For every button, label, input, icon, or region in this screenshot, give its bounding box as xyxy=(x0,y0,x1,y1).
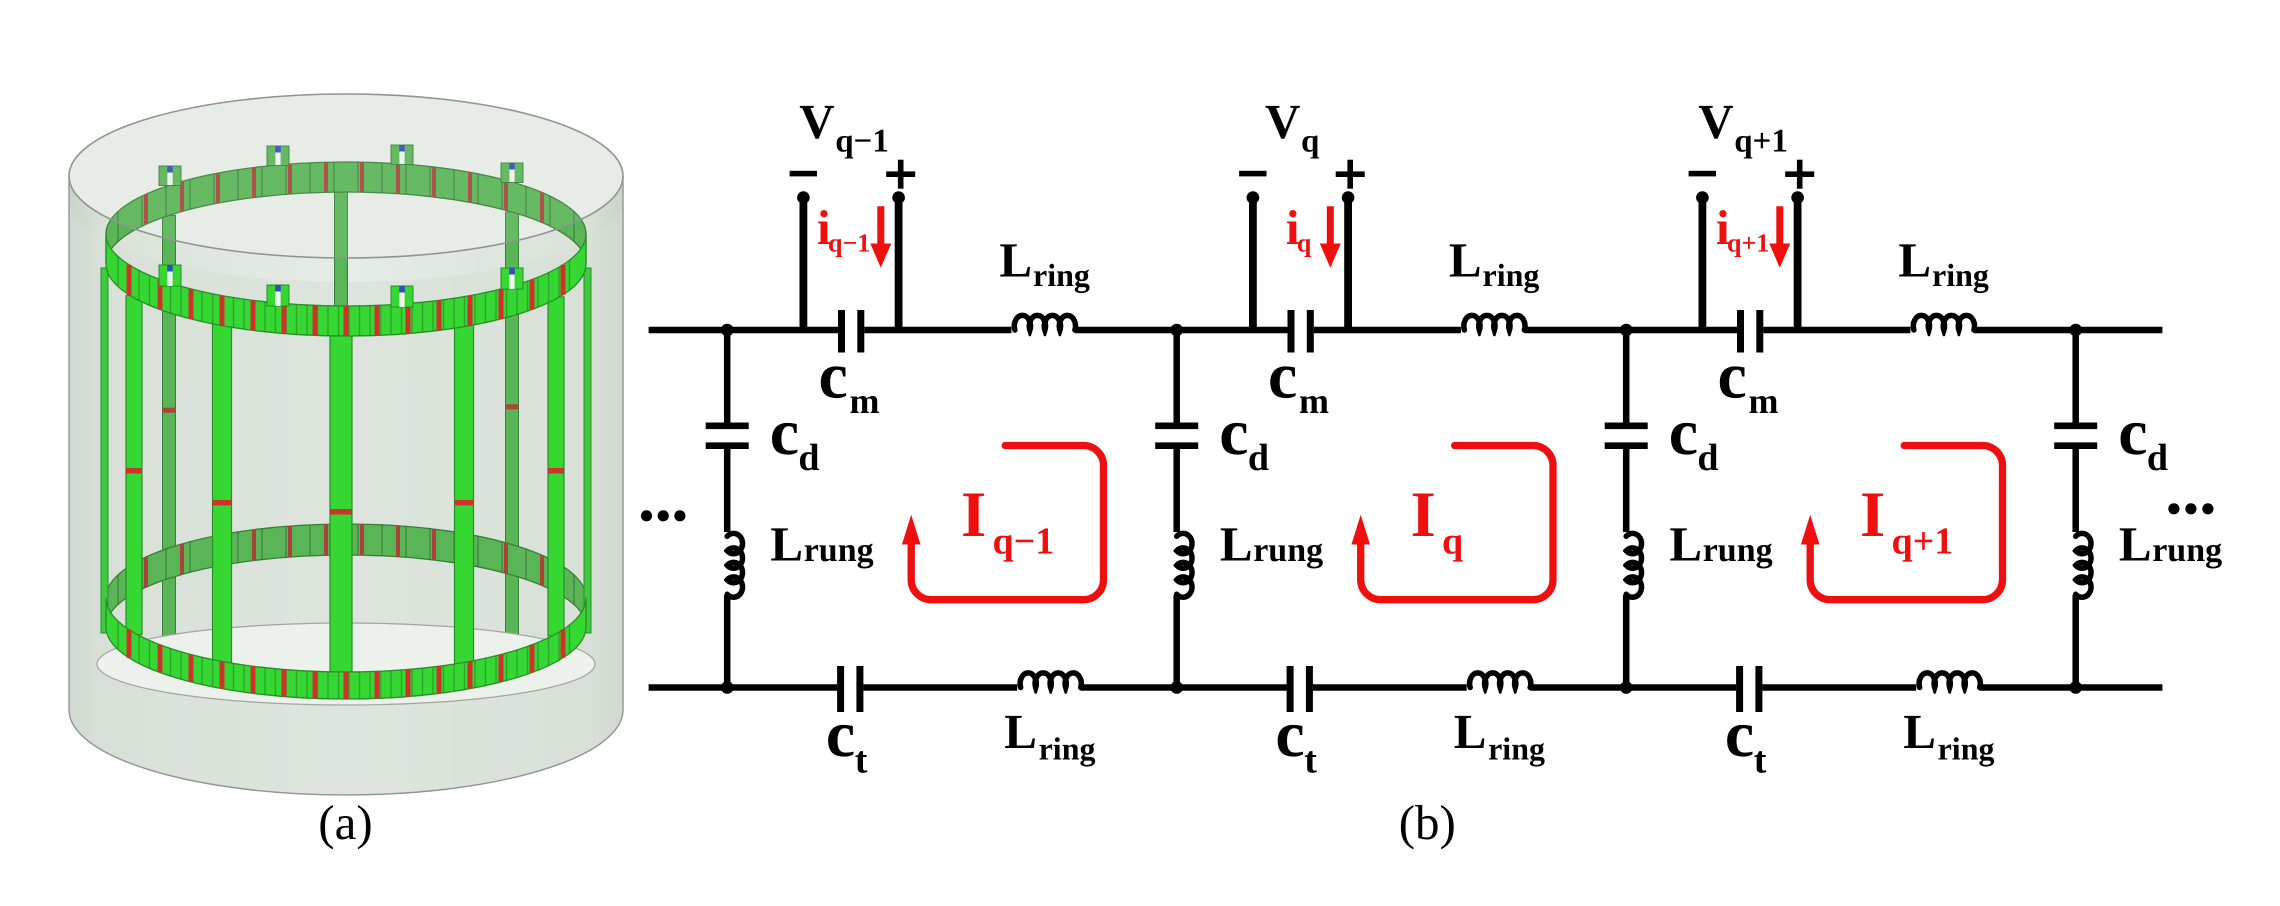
port stub left (node q+1 minus) xyxy=(1699,198,1707,332)
svg-text:t: t xyxy=(855,740,868,782)
glass tint overlay and outlines xyxy=(69,94,623,795)
svg-text:L: L xyxy=(1220,517,1253,572)
wire: rail 4 middle segment xyxy=(2072,449,2079,532)
wire: top ring bus xyxy=(649,327,838,334)
wire: rail 3 lower segment xyxy=(1623,595,1630,688)
svg-text:d: d xyxy=(2147,437,2168,479)
junction dot rail 1 top xyxy=(721,324,734,337)
arrowhead of loop I_q xyxy=(1351,515,1370,545)
port terminal dot plus q+1 xyxy=(1791,191,1804,204)
port stub right (node q plus) xyxy=(1344,198,1352,332)
svg-text:rung: rung xyxy=(804,532,874,569)
svg-text:(b): (b) xyxy=(1399,795,1456,850)
inductor L_ring top (cell q) xyxy=(1464,315,1525,330)
silhouette edge rungs xyxy=(101,268,108,633)
svg-text:c: c xyxy=(826,698,855,771)
ellipsis left (continued network) xyxy=(641,510,652,521)
minus sign of V_q+1 xyxy=(1689,171,1716,177)
svg-text:q: q xyxy=(1297,229,1312,258)
svg-text:q−1: q−1 xyxy=(835,124,889,160)
svg-text:ring: ring xyxy=(1033,257,1090,294)
arrowhead of loop I_q+1 xyxy=(1801,515,1820,545)
arrowhead of loop I_q-1 xyxy=(902,515,921,545)
svg-text:I: I xyxy=(1411,479,1436,551)
svg-text:V: V xyxy=(799,94,834,149)
wire: rail 4 lower segment xyxy=(2072,595,2079,688)
front rungs of birdcage with capacitor gaps xyxy=(126,296,142,635)
svg-text:m: m xyxy=(1749,381,1779,421)
svg-text:ring: ring xyxy=(1932,257,1989,294)
inductor L_ring top (cell q-1) xyxy=(1014,315,1075,330)
svg-text:q: q xyxy=(1301,124,1320,160)
svg-text:L: L xyxy=(1669,517,1702,572)
svg-text:ring: ring xyxy=(1488,731,1545,768)
svg-text:c: c xyxy=(1219,396,1248,469)
inductor L_ring top (cell q+1) xyxy=(1913,315,1974,330)
inductor L_ring bottom (cell q+1) xyxy=(1919,673,1980,688)
ellipsis right (continued network) xyxy=(2168,503,2179,514)
wire: rail 2 middle segment xyxy=(1173,449,1180,532)
svg-text:rung: rung xyxy=(1253,532,1323,569)
junction dot rail 2 bottom xyxy=(1170,681,1183,694)
mesh current loop I_q (red) xyxy=(1361,446,1553,600)
svg-text:L: L xyxy=(2119,517,2152,572)
minus sign of V_q-1 xyxy=(790,171,817,177)
svg-text:t: t xyxy=(1304,740,1317,782)
svg-text:L: L xyxy=(999,233,1032,288)
svg-text:L: L xyxy=(1004,704,1037,759)
svg-text:d: d xyxy=(1697,437,1718,479)
junction dot rail 2 top xyxy=(1170,324,1183,337)
wire: rail 3 middle segment xyxy=(1623,449,1630,532)
svg-text:L: L xyxy=(770,517,803,572)
svg-text:c: c xyxy=(1725,698,1754,771)
svg-text:V: V xyxy=(1265,94,1300,149)
capacitor C_d (rail 4) xyxy=(2054,423,2097,430)
arrow i_q+1 downward (red) xyxy=(1776,206,1783,245)
svg-text:rung: rung xyxy=(1703,532,1773,569)
capacitor C_m (cell q-1) xyxy=(838,310,845,353)
end-ring back arcs with capacitor gaps xyxy=(106,162,586,264)
svg-text:t: t xyxy=(1754,740,1767,782)
plus sign of V_q xyxy=(1336,171,1365,177)
port stub left (node q-1 minus) xyxy=(800,198,808,332)
capacitor C_t (cell q+1) xyxy=(1736,666,1743,712)
port stub right (node q+1 plus) xyxy=(1794,198,1802,332)
plus sign of V_q-1 xyxy=(886,171,915,177)
svg-text:L: L xyxy=(1449,233,1482,288)
svg-text:q+1: q+1 xyxy=(1892,521,1954,563)
arrow i_q downward (red) xyxy=(1327,206,1334,245)
svg-text:m: m xyxy=(1299,381,1329,421)
svg-text:(a): (a) xyxy=(318,795,372,850)
svg-text:c: c xyxy=(819,340,848,413)
junction dot rail 4 top xyxy=(2069,324,2082,337)
svg-text:c: c xyxy=(1669,396,1698,469)
svg-text:c: c xyxy=(2118,396,2147,469)
svg-text:rung: rung xyxy=(2152,532,2222,569)
svg-text:c: c xyxy=(1275,698,1304,771)
capacitor C_m (cell q+1) xyxy=(1737,310,1744,353)
port stub left (node q minus) xyxy=(1249,198,1257,332)
wire: rung rail 4 upper segment xyxy=(2072,330,2079,423)
inductor L_rung (rail 3) xyxy=(1626,533,1641,597)
svg-text:ring: ring xyxy=(1039,731,1096,768)
cylinder floor ellipse xyxy=(97,623,595,705)
svg-text:L: L xyxy=(1903,704,1936,759)
port terminal dot plus q xyxy=(1342,191,1355,204)
wire: rail 2 lower segment xyxy=(1173,595,1180,688)
wire: rail 1 middle segment xyxy=(724,449,731,532)
inductor L_ring bottom (cell q) xyxy=(1470,673,1531,688)
port tabs on back of top end-ring xyxy=(159,166,181,186)
junction dot rail 3 top xyxy=(1620,324,1633,337)
svg-text:I: I xyxy=(1860,479,1885,551)
capacitor C_t (cell q-1) xyxy=(837,666,844,712)
capacitor C_d (rail 1) xyxy=(706,423,749,430)
svg-text:L: L xyxy=(1454,704,1487,759)
inductor L_rung (rail 4) xyxy=(2076,533,2091,597)
plus sign of V_q+1 xyxy=(1785,171,1814,177)
svg-text:L: L xyxy=(1898,233,1931,288)
capacitor C_t (cell q) xyxy=(1287,666,1294,712)
svg-text:m: m xyxy=(850,381,880,421)
glass cylinder top disc xyxy=(69,94,623,258)
port terminal dot minus q xyxy=(1247,191,1260,204)
port stub right (node q-1 plus) xyxy=(895,198,903,332)
wire: bottom ring bus xyxy=(649,684,838,691)
svg-text:q−1: q−1 xyxy=(993,521,1055,563)
inductor L_ring bottom (cell q-1) xyxy=(1020,673,1081,688)
junction dot rail 1 bottom xyxy=(721,681,734,694)
3D birdcage coil model (panel a) xyxy=(69,94,623,795)
svg-text:q: q xyxy=(1442,521,1463,563)
svg-text:ring: ring xyxy=(1483,257,1540,294)
svg-text:c: c xyxy=(1718,340,1747,413)
port tabs on front of top end-ring xyxy=(159,265,181,286)
svg-text:d: d xyxy=(1248,437,1269,479)
capacitor C_d (rail 3) xyxy=(1605,423,1648,430)
junction dot rail 4 bottom xyxy=(2069,681,2082,694)
port terminal dot minus q-1 xyxy=(797,191,810,204)
mesh current loop I_q+1 (red) xyxy=(1810,446,2002,600)
end-ring front arcs with capacitor gaps xyxy=(106,234,586,336)
back rungs of birdcage xyxy=(163,215,176,650)
inductor L_rung (rail 1) xyxy=(727,533,742,597)
svg-text:V: V xyxy=(1698,94,1733,149)
capacitor C_d (rail 2) xyxy=(1155,423,1198,430)
svg-text:I: I xyxy=(961,479,986,551)
junction dot rail 3 bottom xyxy=(1620,681,1633,694)
svg-text:ring: ring xyxy=(1938,731,1995,768)
svg-text:c: c xyxy=(1268,340,1297,413)
inductor L_rung (rail 2) xyxy=(1177,533,1192,597)
port terminal dot minus q+1 xyxy=(1696,191,1709,204)
wire: rung rail 1 upper segment xyxy=(724,330,731,423)
wire: rail 1 lower segment xyxy=(724,595,731,688)
svg-text:q+1: q+1 xyxy=(1734,124,1788,160)
wire: rung rail 3 upper segment xyxy=(1623,330,1630,423)
svg-text:c: c xyxy=(770,396,799,469)
wire: rung rail 2 upper segment xyxy=(1173,330,1180,423)
arrow i_q-1 downward (red) xyxy=(877,206,884,245)
capacitor C_m (cell q) xyxy=(1288,310,1295,353)
minus sign of V_q xyxy=(1239,171,1266,177)
svg-text:q−1: q−1 xyxy=(828,229,870,258)
svg-text:d: d xyxy=(798,437,819,479)
mesh current loop I_q-1 (red) xyxy=(911,446,1103,600)
port terminal dot plus q-1 xyxy=(892,191,905,204)
svg-text:q+1: q+1 xyxy=(1727,229,1769,258)
